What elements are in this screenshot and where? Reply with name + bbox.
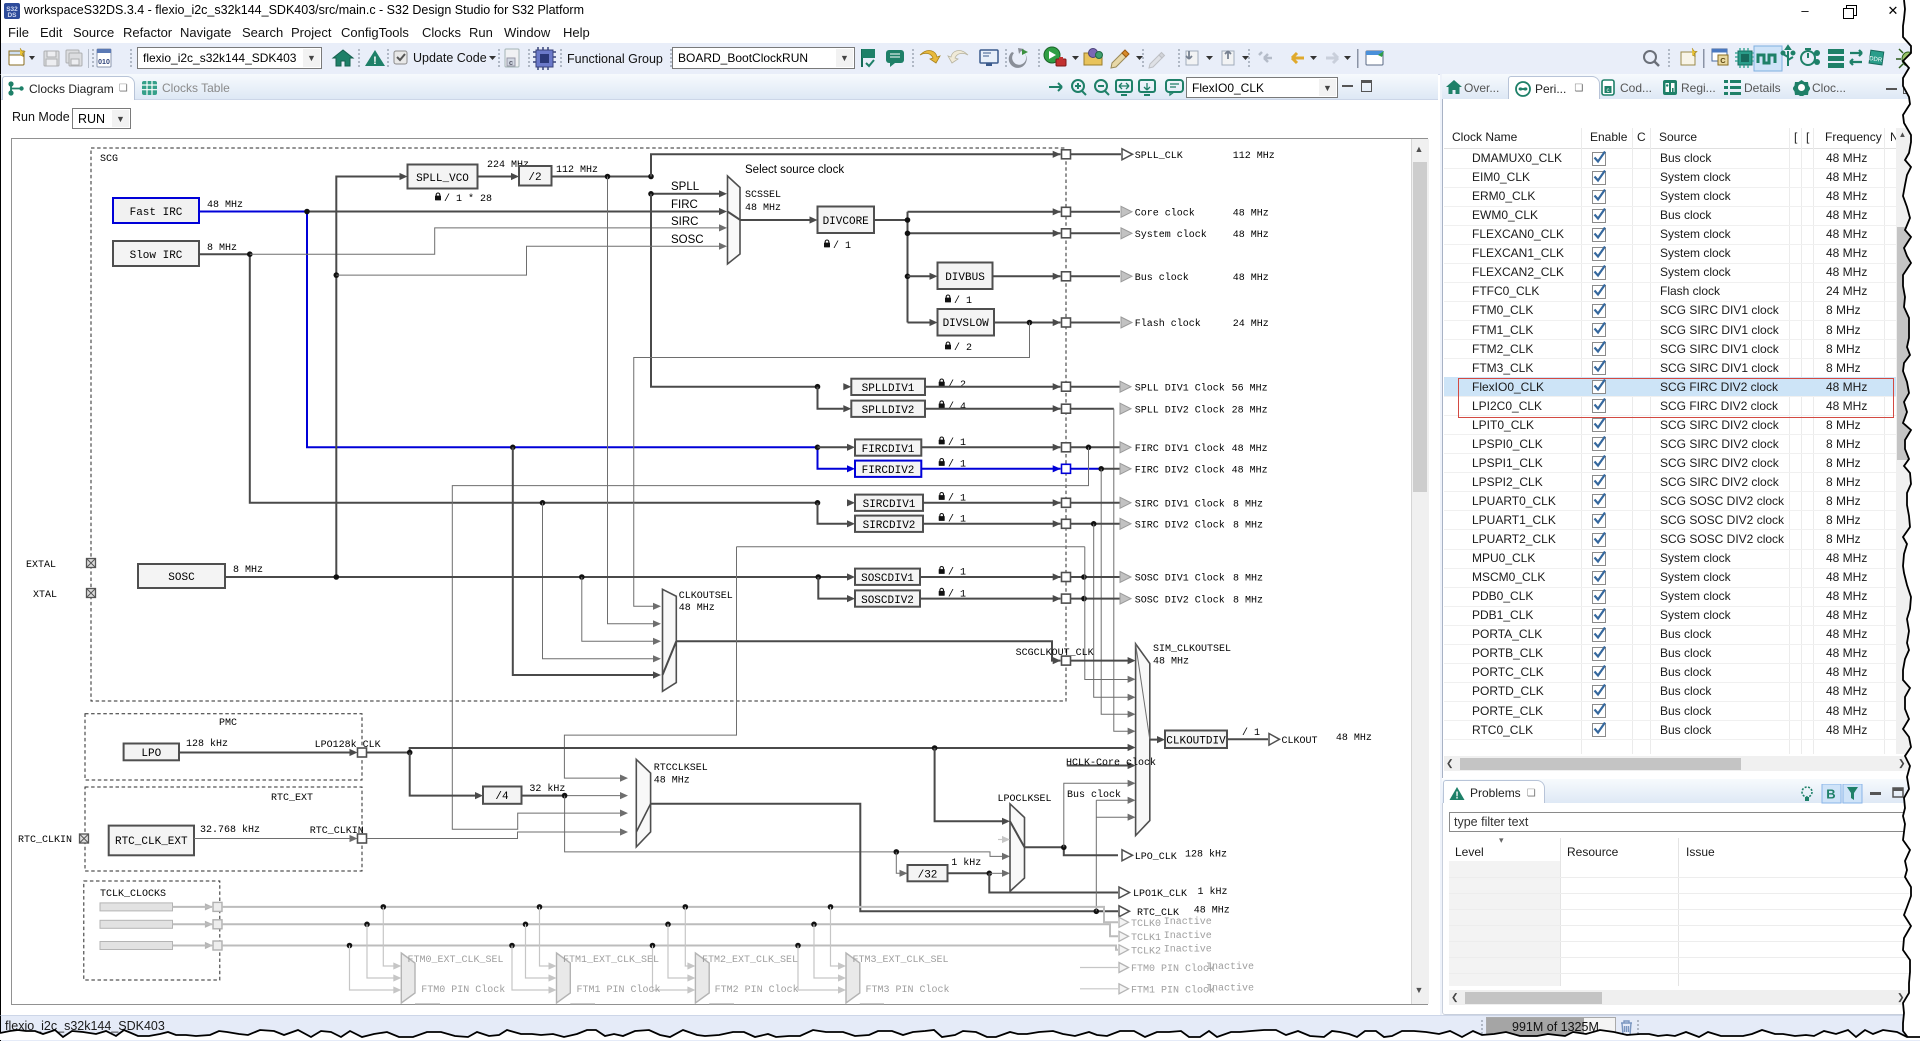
wire: CLKOUT [1227,738,1268,740]
svg-text:TCLK2: TCLK2 [1131,947,1161,958]
svg-text:/ 1: / 1 [954,295,972,307]
RTC_EXT dashed box [85,787,362,871]
node: FIRC junction [304,209,310,215]
TCLK junction dots and FTM drops [347,904,834,948]
svg-text:c: c [509,58,513,67]
box: DIVSLOW [938,309,995,336]
svg-text:SPLLDIV1: SPLLDIV1 [862,383,915,395]
TCLK_CLOCKS dashed box [84,881,220,980]
pad: firc div1 [1053,444,1061,451]
svg-text:SPLL DIV1 Clock: SPLL DIV1 Clock [1135,382,1225,394]
svg-text:48 MHz: 48 MHz [654,776,690,787]
svg-text:LPOCLKSEL: LPOCLKSEL [998,794,1052,805]
right side group [1644,51,1656,63]
svg-text:Flash clock: Flash clock [1135,318,1201,330]
svg-text:/ 1: / 1 [833,240,851,252]
filter input [1449,812,1912,832]
FTM0 PIN Clock output [1080,967,1118,969]
pad: core clock [1053,208,1061,215]
restart [1009,48,1027,68]
wire: TCLK2 row [173,946,1119,950]
svg-text:C: C [1720,56,1726,65]
mux: LPOCLKSEL [1010,804,1025,892]
svg-text:FIRCDIV1: FIRCDIV1 [862,444,915,456]
svg-text:CLKOUT: CLKOUT [1282,736,1318,747]
svg-text:48 MHz: 48 MHz [1233,230,1269,241]
svg-text:RTCCLKSEL: RTCCLKSEL [654,763,708,774]
svg-text:FIRCDIV2: FIRCDIV2 [862,465,915,477]
TCLK pads [205,903,213,910]
mux: SIM_CLKOUTSEL [1136,644,1150,836]
port: LPO_CLK [1122,850,1133,861]
wires: drops to FTM0 mux [350,907,395,990]
wire: SOSCDIV2 output [920,598,1120,600]
pad: flash clock [1053,319,1061,326]
svg-text:SPLLDIV2: SPLLDIV2 [862,405,915,417]
svg-text:SOSC DIV1 Clock: SOSC DIV1 Clock [1135,573,1225,585]
svg-text:FTM0 PIN Clock: FTM0 PIN Clock [1131,963,1215,975]
box: SPLLDIV2 [818,387,844,409]
svg-text:SIRC DIV2 Clock: SIRC DIV2 Clock [1135,520,1225,532]
c doc icon [505,49,519,67]
box: FIRCDIV1 [855,439,921,455]
wire: FIRC output (blue) [199,212,847,469]
wire: RTCCLKSEL output to RTC_CLK [651,804,1118,912]
wire: 1kHz to LPO1K_CLK [989,873,1118,892]
pad: sosc div2 [1053,595,1061,602]
port: CLKOUT [1269,734,1280,746]
bars [1828,49,1844,68]
wire: SOSC output [225,576,847,578]
box: SIRCDIV2 [855,516,923,532]
svg-text:Inactive: Inactive [1206,982,1254,994]
wire: RTC_CLKIN to RTCCLKSEL [367,832,621,839]
svg-text:Bus clock: Bus clock [1067,789,1121,801]
wire: DIVCORE output to Core/System clocks [874,212,1120,323]
pad: RTC_CLKIN out [358,834,367,843]
svg-text:PMC: PMC [219,718,237,729]
new wizard icon [9,48,35,65]
svg-text:48 MHz: 48 MHz [207,200,243,211]
box: /4 divider [483,787,522,804]
node: FIRCDIV junction [815,445,821,451]
diagram view toolbar (teal icons right side of tab bar) [1030,75,1380,99]
svg-text:SPLL_VCO: SPLL_VCO [416,173,469,185]
svg-text:Update Code: Update Code [413,51,487,65]
svg-text:112 MHz: 112 MHz [556,165,598,176]
wire: /4 output to RTCCLKSEL [522,795,565,797]
svg-text:!: ! [1455,790,1458,801]
project combo [137,47,322,69]
wire: 32kHz down to LPOCLKSEL area [565,796,1003,857]
debug/run green ball [1044,47,1060,63]
svg-text:System clock: System clock [1135,229,1207,241]
svg-text:DIVBUS: DIVBUS [945,272,985,284]
wire: SIRCDIV2 to SIM_CLKOUTSEL [1094,524,1128,698]
svg-text:SOSC DIV2 Clock: SOSC DIV2 Clock [1135,594,1225,606]
svg-text:48 MHz: 48 MHz [1153,657,1189,668]
svg-text:/ 1 * 28: / 1 * 28 [444,193,492,205]
wire: /32 feed [896,852,900,873]
wire: LPO128k to LPOCLKSEL [935,748,1003,821]
warning triangle [365,50,385,66]
svg-text:SIM_CLKOUTSEL: SIM_CLKOUTSEL [1153,644,1231,655]
pad: bus clock [1053,273,1061,280]
svg-text:SIRC DIV1 Clock: SIRC DIV1 Clock [1135,499,1225,511]
wire: SOSCDIV2 feed [818,577,847,599]
node: FIRC-CLKOUTSEL junction [510,445,516,451]
svg-text:8 MHz: 8 MHz [233,565,263,576]
svg-text:LPO_CLK: LPO_CLK [1135,852,1177,863]
svg-text:B: B [1826,787,1835,802]
mux: FTM1_EXT_CLK_SEL [557,966,571,978]
svg-text:112 MHz: 112 MHz [1233,151,1275,162]
pad: SPLL_CLK [1053,151,1061,158]
svg-text:48 MHz: 48 MHz [1233,209,1269,220]
svg-text:SIRCDIV2: SIRCDIV2 [863,520,916,532]
wire: SIM_CLKOUTSEL output to CLKOUTDIV [1150,739,1157,741]
port: RTC_CLK [1119,906,1130,917]
svg-text:8 MHz: 8 MHz [1233,574,1263,585]
svg-text:TCLK1: TCLK1 [1131,933,1161,944]
flag icon [861,49,863,67]
svg-text:/4: /4 [495,791,509,803]
wire: SOSC to SCSSEL (jog) [334,272,340,278]
wire: DIVSLOW output / flash clock [994,322,1120,324]
wire: SOSC to CLKOUTSEL [582,577,654,641]
pad: system clock [1053,230,1061,237]
wire: DIVBUS output [993,275,1121,277]
update code checkbox icon [394,51,407,64]
waveform highlighted [1754,46,1782,71]
wire: SOSCDIV1 output [920,576,1120,578]
wire: LPO_CLK to SIM_CLKOUTSEL [1064,783,1128,847]
box: /2 divider [519,166,552,186]
wire: DIVBUS feed [908,275,930,277]
wire: FIRCDIV2 to SIM_CLKOUTSEL [1101,469,1128,714]
svg-text:SPLL_CLK: SPLL_CLK [1135,151,1183,162]
wire: RTC_CLK to SIM_CLKOUTSEL [1096,800,1128,911]
output pads on SCG boundary [1053,150,1071,665]
TCLK source bar 2 [100,942,173,950]
svg-text:SOSC: SOSC [671,234,704,246]
svg-text:24 MHz: 24 MHz [1233,319,1269,330]
wire: LPO128k down to /4 [410,753,475,796]
memory gauge [1486,1017,1616,1039]
box: CLKOUTDIV [1165,731,1227,749]
wire: TCLK1 row [173,924,1119,936]
svg-text:1 kHz: 1 kHz [1198,886,1228,898]
svg-text:CLKOUTDIV: CLKOUTDIV [1166,736,1226,748]
mux: FTM3_EXT_CLK_SEL [846,966,860,978]
svg-text:56 MHz: 56 MHz [1232,383,1268,394]
svg-text:FTM3 PIN Clock: FTM3 PIN Clock [866,984,950,996]
wire: SIRCDIV1 output [923,502,1120,504]
wire: FIRCDIV1 output [921,446,1120,448]
wire: cross-feed to RTCCLKSEL [564,547,736,778]
wire: Bus clock feedback [1096,799,1128,801]
mux: FTM0_EXT_CLK_SEL [401,966,415,978]
svg-text:FTM1 PIN Clock: FTM1 PIN Clock [1131,984,1215,996]
box: LPO [124,744,179,761]
svg-text:EXTAL: EXTAL [26,560,56,571]
svg-text:RTC_CLK_EXT: RTC_CLK_EXT [115,836,188,848]
svg-text:LPO1K_CLK: LPO1K_CLK [1133,889,1187,900]
svg-text:Core clock: Core clock [1135,208,1195,220]
mux: SCSSEL select source clock [728,176,741,264]
last edit arrow [1259,52,1272,62]
comment bubble [886,50,904,67]
svg-text:28 MHz: 28 MHz [1232,405,1268,416]
svg-text:LPO: LPO [141,748,161,760]
svg-text:SOSCDIV2: SOSCDIV2 [861,595,914,607]
export [1222,51,1234,65]
svg-text:LPO128k_CLK: LPO128k_CLK [315,739,381,751]
C/C++ perspective [1712,49,1728,65]
wire: /32 output [948,872,990,874]
pin editor [1366,51,1384,65]
wire: HCLK core clock feedback [1067,765,1128,767]
pad: LPO128k_CLK [358,748,367,757]
svg-text:Bus clock: Bus clock [1135,272,1189,284]
new fast view [1681,48,1697,65]
wires: drops to FTM3 mux [798,907,839,990]
wire: SIRC junction to CLKOUTSEL [540,500,546,506]
usb [1782,46,1795,66]
FTM1 PIN Clock output [1080,988,1118,990]
svg-text:8 MHz: 8 MHz [1233,595,1263,606]
svg-text:SIRCDIV1: SIRCDIV1 [863,499,916,511]
TCLK0 output [1119,917,1129,927]
forward pale [1326,53,1338,63]
svg-text:48 MHz: 48 MHz [1194,906,1230,917]
svg-text:48 MHz: 48 MHz [1232,466,1268,477]
back gold [1292,53,1304,63]
svg-text:/ 1: / 1 [1242,727,1260,739]
svg-text:FIRC DIV1 Clock: FIRC DIV1 Clock [1135,443,1225,455]
svg-text:RTC_CLKIN: RTC_CLKIN [18,835,72,846]
box: DIVCORE [818,207,875,234]
pad: scgclkout [1053,657,1061,664]
problems table header [1455,845,1484,859]
svg-text:48 MHz: 48 MHz [1336,733,1372,744]
pad: firc div2 (blue) [1053,465,1061,472]
svg-text:FTM1_EXT_CLK_SEL: FTM1_EXT_CLK_SEL [563,955,659,966]
svg-text:Slow IRC: Slow IRC [130,250,183,262]
wire: SPLL to SCSSEL [651,193,719,195]
wire: SOSCDIV to SIM_CLKOUTSEL [1085,547,1128,680]
box: /32 divider [908,865,948,881]
svg-text:32 kHz: 32 kHz [529,783,565,795]
import [1186,51,1198,65]
port triangle: SPLL_CLK [1122,149,1133,160]
svg-text:TCLK_CLOCKS: TCLK_CLOCKS [100,889,166,900]
PMC dashed box [85,714,362,780]
svg-text:FTM1 PIN Clock: FTM1 PIN Clock [577,984,661,996]
wire: TCLK0 row [173,907,1119,922]
wire: SIRC output [199,254,816,503]
wire: flash feedback to CLKOUTSEL [634,323,1030,607]
svg-text:1 kHz: 1 kHz [951,857,981,869]
svg-text:/32: /32 [918,870,938,882]
pad: sirc div1 [1053,499,1061,506]
svg-text:32.768 kHz: 32.768 kHz [200,824,260,836]
save (disabled) [44,51,59,66]
pad: spll div1 [1053,383,1061,390]
mux: RTCCLKSEL [636,759,650,847]
wire: LPO128k long line [367,748,1129,753]
box: RTC_CLK_EXT [109,826,194,856]
svg-text:SCGCLKOUT_CLK: SCGCLKOUT_CLK [1016,648,1094,659]
wire: FIRC to SCSSEL mux [307,211,719,213]
svg-text:SCG: SCG [100,154,118,165]
TCLK1 output [1119,931,1129,941]
svg-text:Inactive: Inactive [1206,961,1254,973]
svg-text:/ 4: / 4 [948,401,966,413]
svg-text:FTM3_EXT_CLK_SEL: FTM3_EXT_CLK_SEL [853,955,949,966]
mux: CLKOUTSEL [663,589,677,691]
pad: sirc div2 [1053,520,1061,527]
wire: SIRCDIV1 feed [815,500,821,506]
source box: Slow IRC [113,241,199,266]
svg-text:XTAL: XTAL [33,590,57,601]
wire: LPO output to pad [179,752,350,754]
svg-text:128 kHz: 128 kHz [1185,849,1227,861]
svg-text:SPLL: SPLL [671,181,700,193]
wire: SPLL to SPLLDIV [651,194,816,387]
svg-text:RTC_CLKIN: RTC_CLKIN [310,826,364,837]
wire: SIRCDIV2 output [923,523,1120,525]
svg-text:8 MHz: 8 MHz [1233,500,1263,511]
consumer arrows + labels [1121,206,1132,217]
svg-text:48 MHz: 48 MHz [679,603,715,614]
TCLK source bar 0 [100,903,173,911]
wire: LPOCLKSEL inactive stub [998,839,1003,841]
port: LPO1K_CLK [1119,887,1130,898]
wire: SPLL to CLKOUTSEL [608,177,655,624]
svg-text:RTC_EXT: RTC_EXT [271,793,313,804]
svg-text:SIRC: SIRC [671,216,698,228]
mux: FTM2_EXT_CLK_SEL [695,966,709,978]
svg-text:FTM2_EXT_CLK_SEL: FTM2_EXT_CLK_SEL [702,955,798,966]
marker pen [1111,50,1129,68]
empty rows: level column shading [1449,861,1560,986]
pad: spll div2 [1053,405,1061,412]
wire: SIRC to SCSSEL (jog) [250,228,719,254]
wire: CLKOUTSEL output SCGCLKOUT [676,641,1060,660]
box: SOSCDIV2 [855,590,920,606]
monitor [980,50,998,66]
svg-text:SPLL DIV2 Clock: SPLL DIV2 Clock [1135,404,1225,416]
box: FIRCDIV2 (selected blue) [855,461,921,477]
svg-text:48 MHz: 48 MHz [1233,273,1269,284]
shuffle [1850,50,1862,65]
svg-text:!: ! [373,55,377,67]
svg-text:FIRC: FIRC [671,199,698,211]
source box: SOSC [138,564,225,588]
source box: Fast IRC [113,198,199,223]
svg-text:48 MHz: 48 MHz [745,203,781,214]
wires: drops to FTM2 mux [653,907,689,990]
svg-text:SOSCDIV1: SOSCDIV1 [861,573,914,585]
box: DIVBUS [938,263,993,290]
svg-text:FTM0_EXT_CLK_SEL: FTM0_EXT_CLK_SEL [408,955,504,966]
svg-text:8 MHz: 8 MHz [207,243,237,254]
svg-text:DIVCORE: DIVCORE [823,216,870,228]
wire: SCGCLKOUT to SIM_CLKOUTSEL [1071,660,1128,662]
disabled pen [1149,53,1165,69]
chip icon blue [533,47,556,70]
svg-text:128 kHz: 128 kHz [186,738,228,750]
ddr chip [1869,50,1884,65]
SCG dashed region [91,148,1066,701]
box: SPLLDIV1 [843,383,851,390]
wire: SCSSEL output to DIVCORE [740,219,810,221]
wire: DIVSLOW feed [908,322,930,324]
wire: SPLLDIV1 output [925,386,1120,388]
pad: sosc div1 [1053,573,1061,580]
box: SOSCDIV1 [855,569,920,585]
binary 010 icon [97,49,111,67]
svg-text:Inactive: Inactive [1164,944,1212,956]
timer [1801,49,1820,65]
home icon [333,50,353,66]
svg-text:SOSC: SOSC [168,572,195,584]
chip teal [1735,48,1755,68]
lock: SPLL_VCO ratio [435,193,441,200]
svg-text:c: c [1607,88,1610,94]
wire: SPLL 112MHz line [552,176,652,178]
svg-text:Fast IRC: Fast IRC [130,207,183,219]
svg-text:TCLK0: TCLK0 [1131,919,1161,930]
TCLK source bar 1 [100,920,173,928]
svg-text:FIRC DIV2 Clock: FIRC DIV2 Clock [1135,465,1225,477]
svg-text:8 MHz: 8 MHz [1233,521,1263,532]
wire: LPOCLKSEL output LPO_CLK [1025,847,1119,855]
problems h-scrollbar [1449,990,1910,1005]
svg-text:/ 2: / 2 [954,342,972,354]
svg-text:DIVSLOW: DIVSLOW [943,318,990,330]
svg-text:/2: /2 [528,172,541,184]
undo gold [920,51,940,63]
svg-text:CLKOUTSEL: CLKOUTSEL [679,591,733,602]
box: SPLL_VCO [408,165,478,189]
wire: cross-feed horizontal [737,546,1085,548]
svg-text:010: 010 [98,59,110,66]
wire: RTC_CLK_EXT output to pad [194,838,350,840]
svg-text:Functional Group: Functional Group [567,52,663,66]
bug [1896,49,1920,68]
svg-text:/ 2: / 2 [948,379,966,391]
svg-text:HCLK-Core clock: HCLK-Core clock [1066,757,1156,769]
wire: SPLLDIV2 output, to SIM_CLKOUTSEL [925,408,1114,410]
svg-text:SCSSEL: SCSSEL [745,190,781,201]
TCLK2 output [1119,945,1129,955]
svg-text:DS: DS [7,12,17,19]
open type folder [1084,49,1103,66]
wire: FIRCDIV2 output (blue) [921,468,1101,470]
wire: SPLL_CLK to boundary [651,154,1121,176]
svg-text:Select source clock: Select source clock [745,164,844,176]
wire: FIRCDIV1 feedback to RTCCLKSEL [452,447,1088,829]
wires: drops to FTM1 mux [512,907,549,990]
svg-text:FTM2 PIN Clock: FTM2 PIN Clock [715,984,799,996]
wire: SOSC to SPLL_VCO [336,177,399,578]
box: SIRCDIV1 [855,495,923,511]
wire: FIRC to CLKOUTSEL [513,447,654,675]
diagram vertical scrollbar [1411,139,1429,1004]
svg-text:FTM0 PIN Clock: FTM0 PIN Clock [421,984,505,996]
